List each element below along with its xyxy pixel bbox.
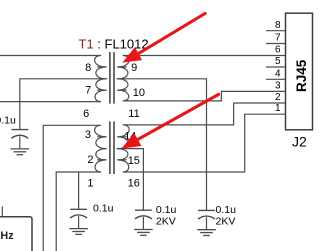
wire T1 pin 9 to RJ45 pin 6 [123, 55, 285, 57]
svg-text:9: 9 [131, 62, 137, 74]
wire T1 pin 6 to left edge (RXD-) [0, 101, 101, 103]
wire RJ45 pin 8 stub [267, 30, 286, 32]
svg-text:2: 2 [87, 154, 93, 166]
svg-text:8: 8 [85, 62, 91, 74]
transformer T1 winding upper-right (pins 9,10,11) [117, 56, 129, 101]
svg-text:16: 16 [128, 178, 140, 190]
transformer T1 winding lower-left (pins 3,2,1) [95, 125, 107, 172]
wire stub entering oscillator box at left edge [1, 207, 3, 217]
wire T1 pin 8 to left edge (RXD+) [0, 55, 101, 57]
ground below C4 [197, 230, 216, 236]
wire drop from pin 1 net down to capacitor C2 [78, 172, 80, 209]
svg-text:6: 6 [83, 108, 89, 120]
capacitor C2 0.1u (on T1 pin 1 net) [70, 209, 87, 228]
svg-text:4: 4 [275, 69, 281, 80]
svg-text:MHz: MHz [0, 230, 14, 242]
svg-text:2KV: 2KV [216, 216, 236, 228]
svg-text:0.1u: 0.1u [0, 115, 16, 127]
wire RJ45 pin 7 stub [267, 43, 286, 45]
svg-text:6: 6 [275, 45, 281, 56]
ground below C3 [134, 230, 153, 236]
wire T1 pin 14 with corner up to RJ45 pin 2 [123, 103, 285, 125]
annotation arrow 1 pointing at T1 pin 9 winding [122, 13, 205, 62]
svg-text:8: 8 [275, 20, 281, 31]
svg-text:J2: J2 [292, 134, 307, 150]
svg-text:1: 1 [87, 178, 93, 190]
svg-text:0.1u: 0.1u [156, 204, 177, 216]
transformer T1 winding upper-left (pins 8,7,6) [95, 56, 107, 102]
svg-text:5: 5 [275, 56, 281, 67]
svg-text:T1 : FL1012: T1 : FL1012 [79, 36, 149, 51]
wire T1 pin 7 with corner down to capacitor C1 [20, 79, 107, 130]
annotation arrow 2 pointing at T1 pin 14 winding [122, 94, 219, 148]
svg-text:0.1u: 0.1u [93, 202, 114, 214]
wire T1 pin 16 with corner up to RJ45 pin 1 [123, 114, 285, 172]
svg-text:3: 3 [275, 81, 281, 92]
capacitor C3 0.1u 2KV (on T1 pin 15) [135, 210, 152, 229]
svg-text:15: 15 [128, 155, 140, 167]
svg-text:10: 10 [133, 87, 145, 99]
capacitor C4 0.1u 2KV (on T1 pin 10) [198, 210, 215, 229]
wire RJ45 pin 5 stub [267, 66, 286, 68]
wire T1 pin 15 right then down to capacitor C3 [117, 149, 143, 210]
svg-text:11: 11 [128, 108, 139, 120]
wire T1 pin 1 corner at x=56 and vertical to bottom edge [56, 172, 100, 251]
oscillator box Y1 (clipped at left edge) [0, 217, 32, 251]
transformer T1 winding lower-right (pins 14,15,16) [117, 125, 129, 172]
wire T1 pin 11 with jog up to RJ45 pin 3 [123, 91, 285, 101]
wire T1 pin 3 corner at x=43 and vertical to bottom edge [43, 125, 100, 251]
svg-text:1: 1 [275, 103, 281, 114]
svg-text:2: 2 [275, 92, 281, 103]
capacitor C1 0.1u (on T1 pin 7) [11, 130, 28, 149]
svg-text:7: 7 [275, 33, 281, 44]
svg-text:7: 7 [85, 85, 91, 97]
ground below C1 [11, 149, 30, 155]
svg-text:0.1u: 0.1u [216, 204, 237, 216]
transformer T1 core upper [110, 52, 114, 104]
wire RJ45 pin 4 stub [267, 78, 286, 80]
svg-text:3: 3 [85, 129, 91, 141]
wire T1 pin 10 right then down to capacitor C4 [117, 79, 206, 210]
svg-text:RJ45: RJ45 [294, 59, 309, 92]
ground below C2 [69, 229, 88, 235]
svg-text:2KV: 2KV [156, 216, 176, 228]
transformer T1 core lower [110, 121, 114, 174]
connector J2 RJ45 body [286, 13, 313, 130]
